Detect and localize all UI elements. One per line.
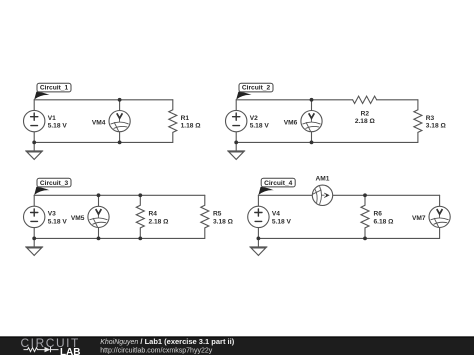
wire: VM7 bottom lead	[439, 228, 441, 239]
voltage source V3	[24, 206, 45, 227]
wire: circuit 1 top rail	[34, 99, 173, 101]
node: VM6 bottom junction	[310, 141, 314, 145]
label R3 value	[426, 115, 447, 130]
svg-text:R3: R3	[426, 115, 435, 122]
svg-text:VM5: VM5	[71, 215, 85, 222]
voltmeter VM7	[429, 206, 450, 227]
node: VM4 bottom junction	[118, 141, 122, 145]
svg-text:LAB: LAB	[60, 347, 81, 355]
svg-text:Circuit_1: Circuit_1	[40, 85, 69, 92]
wire: VM7 top lead	[439, 195, 441, 206]
svg-text:R2: R2	[361, 110, 370, 117]
wire: circuit 3 bottom rail	[34, 237, 205, 239]
resistor R3	[414, 100, 422, 143]
svg-text:V2: V2	[250, 115, 258, 122]
node: V2 bottom junction	[234, 141, 238, 145]
svg-text:5.18 V: 5.18 V	[250, 123, 270, 130]
meter letter V (VM4)	[117, 113, 123, 118]
label V1 value	[48, 115, 68, 130]
ground (circuit 1)	[26, 142, 43, 159]
svg-text:KhoiNguyen / Lab1 (exercise 3.: KhoiNguyen / Lab1 (exercise 3.1 part ii)	[100, 337, 235, 346]
svg-text:V1: V1	[48, 115, 56, 122]
node: R4 top junction	[138, 193, 142, 197]
resistor R4	[136, 195, 144, 238]
svg-text:Circuit_3: Circuit_3	[40, 180, 69, 187]
label R2 value	[355, 110, 376, 125]
svg-text:VM4: VM4	[92, 119, 106, 126]
wire: V3 top lead	[33, 195, 35, 206]
resistor R6	[361, 195, 369, 238]
voltage source V4	[248, 206, 269, 227]
wire: V1 top lead	[33, 100, 35, 111]
node: VM5 top junction	[97, 193, 101, 197]
wire: V2 bottom lead	[235, 132, 237, 143]
svg-text:R5: R5	[213, 211, 222, 218]
svg-text:6.18 Ω: 6.18 Ω	[374, 218, 395, 225]
ammeter AM1	[312, 185, 332, 205]
wire: circuit 2 top rail right	[377, 99, 418, 101]
voltmeter VM6	[301, 100, 322, 143]
wire: circuit 4 bottom rail	[258, 237, 439, 239]
voltmeter VM4	[109, 100, 130, 143]
svg-text:AM1: AM1	[316, 176, 330, 183]
svg-text:2.18 Ω: 2.18 Ω	[149, 218, 170, 225]
footer logo wire art with resistor and diode	[24, 347, 59, 352]
svg-text:Circuit_4: Circuit_4	[264, 180, 293, 187]
resistor R1	[169, 100, 177, 143]
meter letter V (VM5)	[96, 209, 102, 214]
node: R6 top junction	[363, 193, 367, 197]
svg-text:R4: R4	[149, 211, 158, 218]
node flag Circuit_3	[34, 178, 71, 195]
svg-text:VM6: VM6	[284, 119, 298, 126]
svg-text:VM7: VM7	[412, 215, 426, 222]
svg-text:1.18 Ω: 1.18 Ω	[181, 123, 202, 130]
voltmeter VM5	[88, 195, 109, 238]
svg-text:3.18 Ω: 3.18 Ω	[213, 218, 234, 225]
wire: V4 bottom lead	[257, 228, 259, 239]
svg-text:2.18 Ω: 2.18 Ω	[355, 118, 376, 125]
label R4 value	[149, 211, 170, 226]
svg-text:Circuit_2: Circuit_2	[242, 85, 271, 92]
meter letter V (VM6)	[309, 113, 315, 118]
footer bar	[0, 336, 474, 355]
node flag Circuit_4	[258, 178, 295, 195]
wire: circuit 4 top rail right	[333, 194, 440, 196]
svg-text:5.18 V: 5.18 V	[48, 123, 68, 130]
svg-text:5.18 V: 5.18 V	[48, 218, 68, 225]
meter letter A (AM1)	[324, 193, 330, 198]
wire: circuit 2 bottom rail	[236, 141, 418, 143]
node: R6 bottom junction	[363, 237, 367, 241]
footer title line	[100, 337, 235, 346]
wire: circuit 3 top rail	[34, 194, 205, 196]
node flag Circuit_1	[34, 83, 71, 99]
svg-text:http://circuitlab.com/cxmksp7h: http://circuitlab.com/cxmksp7hyy22y	[100, 348, 213, 355]
voltage source V1	[24, 110, 45, 131]
node: V1 bottom junction	[32, 141, 36, 145]
wire: circuit 1 bottom rail	[34, 141, 173, 143]
svg-text:R1: R1	[181, 115, 190, 122]
node: V3 bottom junction	[32, 237, 36, 241]
svg-text:3.18 Ω: 3.18 Ω	[426, 123, 447, 130]
node: V4 bottom junction	[257, 237, 261, 241]
voltage source V2	[226, 110, 247, 131]
wire: V1 bottom lead	[33, 132, 35, 143]
wire: V3 bottom lead	[33, 228, 35, 239]
node: VM6 top junction	[310, 98, 314, 102]
resistor R5	[201, 195, 209, 238]
meter letter V (VM7)	[437, 209, 443, 214]
wire: circuit 2 top rail left	[236, 99, 352, 101]
label R1 value	[181, 115, 202, 130]
node: R4 bottom junction	[138, 237, 142, 241]
label R5 value	[213, 211, 234, 226]
wire: V4 top lead	[257, 195, 259, 206]
label V2 value	[250, 115, 270, 130]
ground (circuit 4)	[250, 238, 267, 255]
wire: circuit 4 top rail left	[258, 194, 312, 196]
node: VM5 bottom junction	[97, 237, 101, 241]
svg-text:V3: V3	[48, 211, 56, 218]
resistor R2	[353, 96, 377, 103]
svg-text:V4: V4	[272, 211, 280, 218]
ground (circuit 3)	[26, 238, 43, 255]
wire: V2 top lead	[235, 100, 237, 111]
node: VM4 top junction	[118, 98, 122, 102]
label V4 value	[272, 211, 292, 226]
label R6 value	[374, 211, 395, 226]
node flag Circuit_2	[236, 83, 273, 99]
ground (circuit 2)	[228, 142, 245, 159]
label V3 value	[48, 211, 68, 226]
svg-text:R6: R6	[374, 211, 383, 218]
svg-text:5.18 V: 5.18 V	[272, 218, 292, 225]
